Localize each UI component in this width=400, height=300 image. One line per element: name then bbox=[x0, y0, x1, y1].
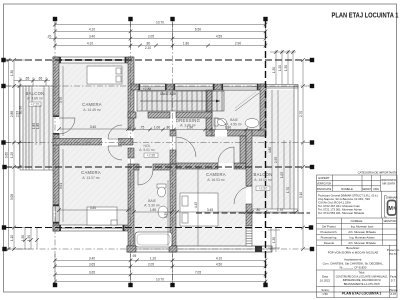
interior dim chain mid y122 hol bbox=[134, 129, 260, 131]
wall under stairs seg3 bbox=[176, 112, 212, 118]
axis marker H4 left bbox=[2, 165, 6, 169]
axis marker B bottom bbox=[128, 283, 132, 287]
floor hatch baie top bbox=[212, 90, 260, 130]
axis marker H6 left bbox=[2, 247, 6, 251]
door arc camera13 from hol bbox=[108, 146, 122, 160]
door arc baie bottom bbox=[138, 170, 153, 185]
axis marker H2 right bbox=[310, 84, 314, 88]
wall mid vertical lower bbox=[128, 164, 134, 252]
svg-text:.80: .80 bbox=[146, 41, 151, 45]
interior dim camera13 bbox=[59, 209, 128, 211]
svg-text:Proiectat Arh.: Proiectat Arh. bbox=[321, 230, 338, 234]
svg-text:3.65: 3.65 bbox=[89, 270, 95, 274]
svg-text:EXPERT: EXPERT bbox=[318, 176, 329, 180]
axis marker B top bbox=[128, 17, 132, 21]
wall bottom-left pier west bbox=[53, 225, 60, 231]
interior dim camera16 vertical bbox=[197, 167, 199, 246]
svg-text:A: 5.39 m²: A: 5.39 m² bbox=[144, 204, 161, 208]
svg-text:BALCON: BALCON bbox=[25, 91, 44, 96]
svg-text:10.70: 10.70 bbox=[156, 277, 164, 281]
svg-text:BAIE: BAIE bbox=[148, 199, 156, 203]
svg-text:1.30: 1.30 bbox=[21, 235, 25, 241]
svg-text:A: 5.01 m²: A: 5.01 m² bbox=[139, 148, 156, 152]
svg-text:2.95: 2.95 bbox=[274, 157, 278, 163]
svg-text:SEMNATURA: SEMNATURA bbox=[384, 219, 397, 223]
svg-text:1.90: 1.90 bbox=[187, 125, 193, 129]
axis marker 2 bottom bbox=[263, 283, 267, 287]
svg-text:DRESSING: DRESSING bbox=[176, 118, 200, 123]
svg-text:3.65: 3.65 bbox=[89, 262, 95, 266]
floor hatch camera 13 bbox=[59, 146, 128, 225]
svg-text:A: 16.03 m²: A: 16.03 m² bbox=[207, 178, 225, 182]
toilet baie bottom bbox=[157, 184, 166, 197]
exterior steps strip bbox=[246, 226, 252, 246]
svg-text:.65: .65 bbox=[38, 77, 43, 81]
door gap left rooms wall bbox=[102, 138, 118, 146]
stairs floor bbox=[137, 91, 224, 111]
wall right camera16 lower bbox=[246, 204, 252, 226]
interior dim chain mid y129 bbox=[59, 128, 128, 130]
svg-text:BALCON: BALCON bbox=[253, 172, 272, 177]
window left wall lower bbox=[53, 206, 59, 222]
axis marker H1 left bbox=[1, 58, 5, 62]
left dimension chain 2 bbox=[13, 60, 15, 249]
svg-text:3.91: 3.91 bbox=[59, 183, 63, 189]
balcony left top mini chain bbox=[14, 77, 50, 86]
svg-text:PLAN ETAJ LOCUINTA 1: PLAN ETAJ LOCUINTA 1 bbox=[332, 11, 399, 20]
svg-text:1.80: 1.80 bbox=[36, 123, 40, 129]
furniture dresser camera13 bbox=[87, 207, 117, 225]
axis line H2 horizontal y86 bbox=[5, 85, 310, 87]
floor hatch camera 16 bbox=[176, 169, 246, 246]
axis line H1 horizontal y60 bbox=[5, 59, 310, 61]
svg-text:4.10: 4.10 bbox=[89, 27, 95, 31]
svg-text:4.55: 4.55 bbox=[216, 35, 222, 39]
svg-text:Arh. Muresan Mihaela: Arh. Muresan Mihaela bbox=[348, 241, 376, 245]
logo bbox=[385, 196, 398, 218]
svg-text:1.20: 1.20 bbox=[278, 65, 282, 71]
window top-left wall bbox=[60, 57, 126, 63]
svg-text:1.25: 1.25 bbox=[10, 152, 14, 158]
wall baie-bottom right vertical bbox=[170, 164, 176, 252]
floor hatch baie bottom bbox=[134, 164, 170, 246]
window top-middle 2 bbox=[174, 84, 214, 90]
floor hatch balcon right bbox=[252, 90, 294, 209]
svg-text:1.20: 1.20 bbox=[150, 256, 156, 260]
svg-text:POP-VOIN DORIN si MOCAN NICOLA: POP-VOIN DORIN si MOCAN NICOLAE bbox=[328, 250, 379, 254]
window jambs bbox=[53, 57, 258, 231]
wall under stairs seg1 bbox=[128, 112, 136, 118]
svg-text:1.05: 1.05 bbox=[280, 172, 284, 178]
svg-text:VERIFICATOR: VERIFICATOR bbox=[317, 181, 331, 185]
floor hatch camera 14 bbox=[59, 63, 128, 139]
svg-text:CAMERA: CAMERA bbox=[81, 170, 101, 175]
furniture bed camera16 bbox=[180, 193, 218, 226]
svg-text:2.05: 2.05 bbox=[148, 35, 154, 39]
svg-text:3.45: 3.45 bbox=[207, 208, 213, 212]
svg-text:SEMNAT: SEMNAT bbox=[362, 187, 371, 191]
top dimension chain 2 bbox=[55, 30, 266, 32]
bottom right vertical mini chain bbox=[268, 228, 280, 252]
svg-text:18x17.8/28: 18x17.8/28 bbox=[160, 92, 176, 96]
balcony left outline bbox=[20, 86, 53, 170]
svg-text:6.50: 6.50 bbox=[195, 27, 201, 31]
door arc camera14 from hol bbox=[108, 125, 122, 139]
svg-text:M: M bbox=[393, 205, 397, 210]
svg-text:+2.88: +2.88 bbox=[143, 87, 151, 91]
wall bottom of baie-top bbox=[211, 130, 266, 136]
balcony right railing bbox=[252, 85, 298, 214]
wall top-middle exterior bbox=[131, 84, 266, 90]
wall hol-dressing vertical lower bbox=[170, 150, 176, 164]
level box balcon right bbox=[256, 186, 270, 191]
pier bottom band east bbox=[255, 246, 262, 252]
axis marker C top bbox=[170, 17, 174, 21]
axis marker H3 right bbox=[310, 140, 314, 144]
wall left exterior bbox=[53, 57, 59, 231]
wall under stairs seg2 bbox=[148, 112, 170, 118]
axis line B vertical x130.5 bbox=[130, 21, 132, 283]
svg-text:2.90: 2.90 bbox=[235, 41, 241, 45]
svg-text:BL 90: BL 90 bbox=[19, 106, 23, 114]
axis marker H5 left bbox=[2, 225, 6, 229]
door arc balcony right bbox=[234, 186, 252, 204]
svg-text:4.45: 4.45 bbox=[194, 202, 198, 208]
wall hol bottom seg2 bbox=[153, 164, 170, 170]
bottom dim chain 2 bbox=[55, 265, 266, 267]
svg-text:SPECIFICATIE: SPECIFICATIE bbox=[317, 187, 332, 191]
axis marker H3 left bbox=[1, 140, 5, 144]
window top-middle 3 bbox=[222, 84, 258, 90]
axis marker A top bbox=[53, 17, 57, 21]
shower diagonal baie top bbox=[235, 93, 259, 111]
camera14 vertical dim bbox=[62, 66, 64, 136]
door arc baie top bbox=[215, 118, 227, 130]
bottom dim chain 3 bbox=[55, 274, 266, 276]
balcon right vertical dims bbox=[272, 90, 290, 209]
svg-text:4.10: 4.10 bbox=[216, 256, 222, 260]
axis marker H6 right bbox=[310, 247, 314, 251]
svg-text:A: 13.07 m²: A: 13.07 m² bbox=[82, 176, 100, 180]
balcony left inner dims bbox=[36, 105, 40, 145]
svg-text:3.08: 3.08 bbox=[10, 194, 14, 200]
svg-text:4.80: 4.80 bbox=[268, 147, 272, 153]
axis line H5 horizontal y227.5 bbox=[5, 227, 310, 229]
left lower mini chain bbox=[25, 228, 37, 250]
svg-text:A.07: A.07 bbox=[390, 292, 396, 296]
door arc camera16 bbox=[218, 147, 234, 163]
svg-text:A: 4.66 m²: A: 4.66 m² bbox=[27, 97, 44, 101]
svg-text:PO 57: PO 57 bbox=[389, 252, 397, 256]
svg-text:2.10: 2.10 bbox=[145, 46, 151, 50]
furniture bed camera14 bbox=[87, 66, 122, 84]
sink baie bottom bbox=[158, 206, 168, 218]
svg-text:CAMERA: CAMERA bbox=[206, 172, 226, 177]
svg-text:1.30: 1.30 bbox=[10, 70, 14, 76]
svg-text:.20: .20 bbox=[47, 35, 52, 39]
axis marker H4 right bbox=[310, 165, 314, 169]
floor hatch hol bbox=[134, 111, 170, 164]
floor hatch balcon left bbox=[22, 88, 53, 168]
svg-text:1.80: 1.80 bbox=[225, 125, 231, 129]
wall mid pier bbox=[128, 148, 134, 158]
svg-text:3.40: 3.40 bbox=[89, 256, 95, 260]
svg-text:+2.70: +2.70 bbox=[31, 103, 40, 107]
svg-text:1.30: 1.30 bbox=[284, 65, 288, 71]
wc baie top bbox=[214, 118, 227, 126]
axis marker H2 left bbox=[1, 84, 5, 88]
svg-text:PLAN ETAJ LOCUINTA 1: PLAN ETAJ LOCUINTA 1 bbox=[342, 292, 382, 296]
axis marker 2 top bbox=[263, 17, 267, 21]
camera13 vertical dim bbox=[62, 149, 64, 222]
title block bbox=[317, 175, 398, 298]
wall hol bottom seg1 bbox=[134, 164, 139, 170]
left dimension chain 3 bbox=[19, 86, 21, 167]
svg-text:4.50: 4.50 bbox=[216, 262, 222, 266]
wall camera16 top seg2 bbox=[234, 163, 246, 169]
svg-text:Sef Proiect: Sef Proiect bbox=[322, 225, 336, 229]
top dimension chain 4 bbox=[55, 45, 266, 47]
pier bottom band west bbox=[127, 246, 136, 252]
svg-text:2.70: 2.70 bbox=[299, 111, 303, 117]
window bottom-left wall bbox=[60, 225, 124, 231]
level box hol bbox=[144, 153, 158, 158]
svg-text:3.75: 3.75 bbox=[59, 97, 63, 103]
wall hol-dressing vertical upper bbox=[170, 130, 176, 136]
svg-text:NUMELE: NUMELE bbox=[341, 187, 353, 191]
axis line C vertical x172.5 bbox=[172, 21, 174, 283]
svg-text:Tel: 0744 553 321: Muresan Mih: Tel: 0744 553 321: Muresan Mihaela bbox=[318, 211, 364, 215]
svg-text:DIMMAR: DIMMAR bbox=[386, 196, 397, 200]
svg-text:1.70: 1.70 bbox=[286, 187, 290, 193]
axis line H3 horizontal y142.5 bbox=[5, 142, 310, 144]
svg-text:Desenat: Desenat bbox=[324, 241, 335, 245]
svg-text:.80: .80 bbox=[166, 125, 171, 129]
svg-text:Arh. Muresan Mihaela: Arh. Muresan Mihaela bbox=[348, 230, 376, 234]
top dimension chain 3 bbox=[49, 38, 266, 40]
axis marker H1 right bbox=[310, 58, 314, 62]
stairs treads bbox=[137, 91, 224, 111]
svg-text:Proiectat Ing.: Proiectat Ing. bbox=[321, 236, 338, 240]
svg-text:1.50: 1.50 bbox=[27, 235, 31, 241]
svg-text:.65: .65 bbox=[25, 77, 30, 81]
svg-text:D.T.: D.T. bbox=[391, 279, 396, 283]
svg-text:NR./DATA: NR./DATA bbox=[382, 182, 395, 186]
wall right camera16 upper bbox=[246, 130, 252, 186]
door gap baie-top bbox=[215, 130, 227, 137]
axis marker A bottom bbox=[53, 283, 57, 287]
svg-text:Nr.______, CF 61830: Nr.______, CF 61830 bbox=[340, 265, 367, 269]
svg-text:+2.85: +2.85 bbox=[147, 154, 156, 158]
terrace band bottom middle bbox=[127, 246, 272, 252]
wall right of baie-top on axis2 bbox=[260, 84, 266, 136]
wall top-left pier east bbox=[126, 57, 133, 63]
right axis distance chain bbox=[302, 60, 304, 249]
wall bottom-left pier east bbox=[124, 225, 133, 231]
svg-text:NUMELE: NUMELE bbox=[351, 219, 363, 223]
svg-text:.75: .75 bbox=[140, 125, 145, 129]
svg-text:.95: .95 bbox=[132, 254, 137, 258]
svg-text:1.30: 1.30 bbox=[272, 237, 276, 243]
top dimension chain 1 bbox=[55, 22, 266, 48]
axis marker C bottom bbox=[170, 283, 174, 287]
interior dim baie bottom bbox=[134, 211, 172, 213]
svg-text:3.40: 3.40 bbox=[90, 206, 96, 210]
svg-text:.80: .80 bbox=[256, 208, 261, 212]
level box balcon left bbox=[29, 102, 41, 107]
svg-text:10.2022: 10.2022 bbox=[320, 279, 331, 283]
svg-text:1.00: 1.00 bbox=[154, 125, 160, 129]
svg-text:CAMERA: CAMERA bbox=[82, 102, 102, 107]
svg-text:1.80: 1.80 bbox=[183, 41, 189, 45]
floor hatch dressing bbox=[176, 112, 206, 163]
svg-text:1.30: 1.30 bbox=[272, 67, 276, 73]
svg-text:7.05: 7.05 bbox=[195, 270, 201, 274]
door opening left wall bbox=[53, 117, 60, 133]
svg-text:URA: URA bbox=[373, 187, 379, 191]
svg-text:A: 14.06 m²: A: 14.06 m² bbox=[254, 178, 272, 182]
svg-text:3.35: 3.35 bbox=[164, 212, 168, 218]
svg-text:3.10: 3.10 bbox=[299, 192, 303, 198]
wall top-left pier west bbox=[53, 57, 60, 63]
svg-text:1:50: 1:50 bbox=[322, 292, 328, 296]
floor hatch nook bbox=[206, 136, 246, 163]
svg-text:10.70: 10.70 bbox=[156, 20, 164, 24]
bathtub baie bottom bbox=[135, 232, 172, 247]
door arc dressing bbox=[176, 137, 196, 157]
left dimension chain 1 bbox=[6, 60, 30, 249]
svg-text:+2.80: +2.80 bbox=[259, 187, 268, 191]
pier bottom band mid bbox=[169, 246, 177, 252]
svg-text:Ing. Muresan Adrian: Ing. Muresan Adrian bbox=[349, 236, 374, 240]
wall nook right vertical bbox=[240, 136, 246, 163]
bottom dim chain 1 bbox=[55, 254, 266, 283]
svg-text:3.40: 3.40 bbox=[90, 125, 96, 129]
svg-text:4.10: 4.10 bbox=[87, 41, 93, 45]
axis line 2 bold vertical x265.5 bbox=[265, 21, 267, 283]
wall between left rooms bbox=[53, 139, 133, 146]
wall dressing vertical bbox=[206, 90, 212, 136]
axis marker H5 right bbox=[309, 225, 313, 229]
svg-text:1.10: 1.10 bbox=[10, 235, 14, 241]
door arc balcony left bbox=[59, 118, 75, 134]
interior dim camera16 bbox=[177, 211, 296, 213]
section dashed line right lower bbox=[196, 212, 310, 214]
wall camera16 top seg1 bbox=[176, 163, 218, 169]
svg-text:A: 14.45 m²: A: 14.45 m² bbox=[83, 108, 101, 112]
svg-text:CATEGORIA DE IMPORTANTA: CATEGORIA DE IMPORTANTA bbox=[358, 171, 398, 175]
bottom dim chain 4 bbox=[55, 281, 266, 283]
svg-text:BRANSAMENTE LA UTILITATI: BRANSAMENTE LA UTILITATI bbox=[344, 282, 380, 286]
stairs arrow bbox=[140, 100, 220, 102]
sink baie top bbox=[245, 119, 259, 128]
right upper small chain bbox=[270, 50, 296, 84]
interior dim baie vertical bbox=[167, 180, 169, 246]
axis line H6 horizontal y249 bbox=[5, 248, 310, 250]
axis line H4 horizontal y167 bbox=[5, 166, 310, 168]
svg-text:1.90: 1.90 bbox=[150, 208, 156, 212]
svg-text:3.40: 3.40 bbox=[89, 35, 95, 39]
svg-text:BAIE: BAIE bbox=[230, 118, 238, 122]
svg-text:9.60: 9.60 bbox=[4, 152, 8, 158]
svg-text:2.05: 2.05 bbox=[148, 262, 154, 266]
svg-text:2.88: 2.88 bbox=[10, 111, 14, 117]
window top-middle 1 bbox=[139, 84, 166, 90]
svg-text:Ing. Muresan Ioan: Ing. Muresan Ioan bbox=[351, 225, 374, 229]
wall mid vertical upper bbox=[128, 57, 134, 130]
axis line A vertical x55 bbox=[54, 21, 56, 283]
